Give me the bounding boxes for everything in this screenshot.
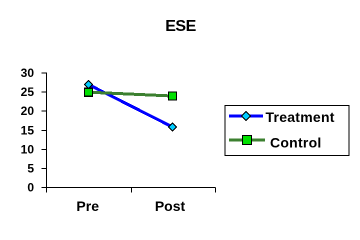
x-axis line [47, 187, 216, 189]
svg-text:Post: Post [155, 198, 186, 214]
svg-text:ESE: ESE [165, 18, 196, 35]
y-axis tick 15 [42, 130, 47, 132]
x-axis middle tick [131, 188, 133, 193]
svg-text:5: 5 [27, 162, 34, 176]
svg-text:30: 30 [21, 66, 35, 80]
series Control marker Pre (square) [85, 88, 93, 96]
y-axis tick 10 [42, 149, 47, 151]
svg-text:Control: Control [270, 134, 322, 150]
y-axis line [46, 73, 48, 193]
svg-text:Treatment: Treatment [266, 109, 335, 125]
y-axis tick 25 [42, 91, 47, 93]
svg-text:10: 10 [21, 143, 35, 157]
y-axis tick 5 [42, 168, 47, 170]
legend Treatment marker (diamond) [242, 112, 251, 121]
series Control line [89, 92, 173, 96]
svg-text:25: 25 [21, 85, 35, 99]
svg-text:0: 0 [27, 181, 34, 195]
svg-text:15: 15 [21, 124, 35, 138]
svg-text:20: 20 [21, 104, 35, 118]
legend Control marker (square) [243, 136, 252, 145]
y-axis tick 0 [42, 187, 47, 189]
y-axis tick 20 [42, 110, 47, 112]
x-axis end tick [215, 188, 217, 193]
svg-text:Pre: Pre [76, 198, 99, 214]
series Treatment line [89, 85, 173, 128]
series Control marker Post (square) [169, 92, 177, 100]
legend box [225, 106, 349, 156]
legend Treatment line sample [229, 115, 263, 118]
legend Control line sample [229, 139, 265, 142]
series Treatment marker Pre (diamond) [85, 81, 93, 89]
y-axis tick 30 [42, 72, 47, 74]
series Treatment marker Post (diamond) [169, 123, 177, 131]
